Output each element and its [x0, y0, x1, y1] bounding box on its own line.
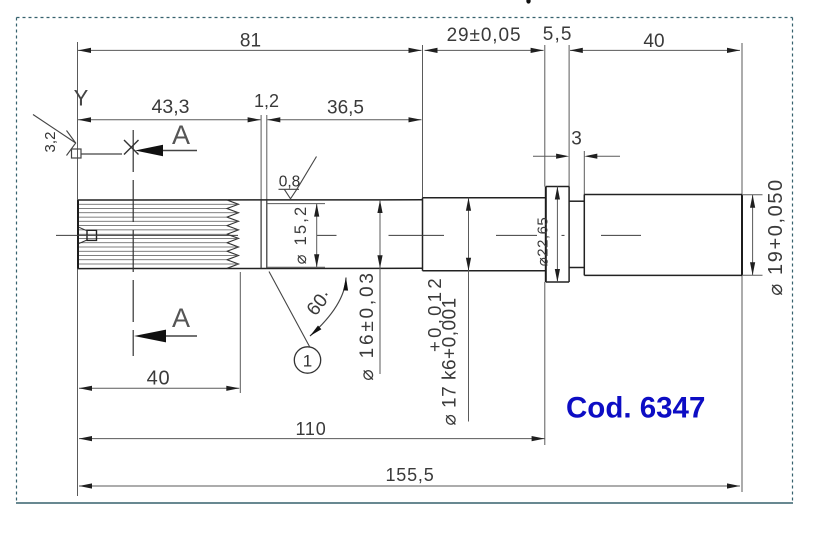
svg-text:40: 40: [147, 368, 171, 390]
svg-text:81: 81: [240, 31, 261, 52]
svg-text:Y: Y: [74, 86, 89, 111]
svg-text:110: 110: [295, 419, 326, 439]
svg-text:36,5: 36,5: [327, 98, 364, 119]
svg-text:1: 1: [303, 352, 312, 371]
svg-text:⌀22,65: ⌀22,65: [535, 217, 552, 267]
svg-text:155,5: 155,5: [385, 465, 434, 485]
svg-text:3,2: 3,2: [42, 132, 59, 153]
svg-text:⌀ 16±0,03: ⌀ 16±0,03: [357, 270, 378, 380]
svg-text:3: 3: [571, 129, 582, 150]
svg-text:40: 40: [643, 31, 664, 52]
svg-text:⌀ 17 k6+0,001: ⌀ 17 k6+0,001: [440, 297, 461, 425]
svg-text:5,5: 5,5: [543, 24, 573, 45]
svg-text:A: A: [172, 303, 190, 333]
svg-text:1,2: 1,2: [254, 91, 279, 111]
svg-text:⌀ 19+0,050: ⌀ 19+0,050: [765, 178, 787, 296]
svg-text:⌀ 15,2: ⌀ 15,2: [292, 205, 310, 265]
svg-text:43,3: 43,3: [152, 96, 190, 118]
svg-text:Cod. 6347: Cod. 6347: [566, 392, 705, 425]
svg-text:A: A: [172, 120, 190, 150]
svg-text:29±0,05: 29±0,05: [447, 25, 522, 46]
